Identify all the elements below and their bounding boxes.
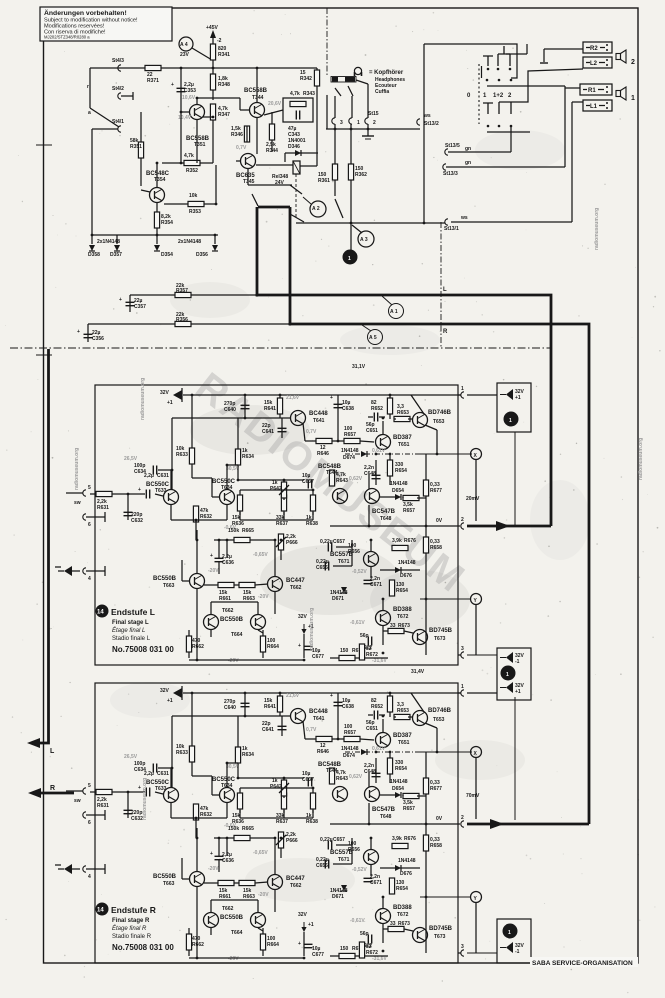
resistor R643 — [329, 470, 334, 486]
wire T671 emitter/collector — [370, 540, 372, 551]
svg-text:C353: C353 — [184, 88, 196, 94]
svg-text:Étage final L: Étage final L — [112, 627, 145, 634]
svg-text:BC547B: BC547B — [372, 509, 396, 515]
svg-text:Final stage R: Final stage R — [112, 918, 150, 924]
svg-text:St4/1: St4/1 — [112, 119, 124, 125]
resistor R361 — [334, 124, 336, 196]
box L1 — [583, 100, 612, 111]
SABA footer text — [530, 957, 638, 967]
svg-text:33: 33 — [390, 623, 396, 629]
svg-text:56p: 56p — [360, 633, 369, 639]
svg-text:D676: D676 — [400, 573, 412, 579]
svg-text:No.75008 031 00: No.75008 031 00 — [112, 645, 174, 654]
svg-text:+1: +1 — [515, 689, 521, 695]
svg-text:2: 2 — [461, 517, 464, 523]
resistor R654 — [389, 455, 391, 485]
svg-text:150: 150 — [340, 648, 349, 654]
svg-text:+: + — [77, 329, 80, 335]
svg-text:C631: C631 — [157, 473, 169, 479]
svg-text:1: 1 — [348, 256, 351, 262]
svg-text:1: 1 — [506, 672, 509, 678]
svg-text:2x1N4148: 2x1N4148 — [97, 239, 120, 245]
right column BC557B etc — [364, 552, 379, 567]
svg-text:R677: R677 — [430, 488, 442, 494]
svg-text:T641: T641 — [313, 418, 325, 424]
svg-text:a: a — [88, 110, 91, 116]
resistor R632 — [193, 506, 198, 522]
svg-text:Stadio finale L: Stadio finale L — [112, 636, 151, 642]
matrix top bridge contact — [498, 46, 510, 66]
svg-text:R352: R352 — [186, 168, 198, 174]
wire T633 collector — [170, 470, 172, 489]
connector St4/3 — [118, 65, 121, 71]
wire — [89, 68, 91, 108]
dash to X node — [420, 453, 472, 455]
wire BD388 collector — [382, 599, 384, 610]
svg-text:C634: C634 — [134, 469, 146, 475]
svg-text:radiomuseum.org: radiomuseum.org — [142, 778, 148, 820]
svg-text:T633: T633 — [155, 488, 167, 494]
svg-text:L: L — [50, 748, 55, 755]
capacitor C641 — [281, 418, 283, 438]
svg-text:BD745B: BD745B — [429, 628, 453, 634]
svg-text:R654: R654 — [396, 588, 408, 594]
junction dots amp — [127, 394, 392, 662]
svg-text:R676: R676 — [404, 538, 416, 544]
svg-text:-20V: -20V — [208, 568, 219, 574]
svg-text:20mV: 20mV — [466, 496, 480, 502]
diodes D358 D357 — [91, 235, 93, 244]
resistor R678 — [330, 657, 365, 659]
transistor T672 BD388 — [376, 611, 391, 626]
info box top left — [40, 7, 172, 41]
transistor T651 BD387 — [376, 435, 391, 450]
thick output line L amp with arrow — [467, 521, 551, 531]
svg-text:R663: R663 — [243, 596, 255, 602]
svg-text:r: r — [87, 84, 89, 90]
speaker 1 icon — [616, 87, 626, 100]
svg-text:R673: R673 — [398, 623, 410, 629]
R in arrow — [28, 788, 41, 798]
svg-text:R662: R662 — [192, 644, 204, 650]
svg-text:14: 14 — [97, 610, 104, 616]
svg-text:L2: L2 — [590, 61, 598, 67]
wire rail to L bus — [130, 294, 257, 296]
svg-text:radiomuseum.org: radiomuseum.org — [594, 208, 600, 250]
svg-text:R633: R633 — [176, 452, 188, 458]
svg-text:radiomuseum.org: radiomuseum.org — [638, 438, 644, 480]
wire T344 emitter to R343 net — [264, 110, 283, 115]
svg-text:St4/3: St4/3 — [112, 58, 124, 64]
svg-text:14: 14 — [97, 908, 104, 914]
svg-text:A 1: A 1 — [390, 309, 398, 315]
wire mid row to R1 — [487, 85, 565, 87]
transistor T641 BC448 — [291, 411, 306, 426]
+32V terminal box middle — [467, 648, 531, 820]
svg-text:C641: C641 — [262, 429, 274, 435]
speaker 2 icon — [616, 50, 626, 63]
svg-text:3: 3 — [461, 646, 464, 652]
svg-text:-31,6V: -31,6V — [372, 658, 387, 664]
resistor R634 — [237, 418, 239, 450]
+32V terminal box top — [497, 383, 531, 526]
svg-text:R656: R656 — [348, 549, 360, 555]
svg-text:BC447: BC447 — [286, 578, 305, 584]
svg-text:MJ202/STZ348/R0280 a: MJ202/STZ348/R0280 a — [44, 35, 90, 40]
svg-text:Stadio finale R: Stadio finale R — [112, 934, 152, 940]
middle resistors R665 P666 — [234, 537, 250, 542]
transistor T648 BC547B — [365, 489, 380, 504]
diode D354 — [156, 235, 158, 244]
cap C671 diode D671 — [364, 580, 373, 583]
svg-text:R362: R362 — [355, 172, 367, 178]
input resistor R631 — [90, 493, 145, 495]
trimmer P642 — [283, 480, 285, 500]
wire BD745B base row — [404, 631, 413, 633]
svg-text:T345: T345 — [243, 179, 255, 185]
wire rail to R bus — [88, 323, 290, 325]
svg-text:6: 6 — [88, 522, 91, 528]
svg-text:-1: -1 — [515, 949, 520, 955]
svg-text:+45V: +45V — [206, 25, 218, 31]
svg-text:T673: T673 — [434, 636, 446, 642]
resistor R641 — [279, 395, 281, 418]
svg-text:2: 2 — [631, 59, 635, 66]
svg-text:10,4V: 10,4V — [178, 115, 192, 121]
wire bottom -29V rail — [189, 659, 304, 661]
svg-text:R2: R2 — [590, 46, 598, 52]
svg-text:T354: T354 — [154, 177, 166, 183]
svg-text:A 3: A 3 — [360, 237, 368, 243]
resistor R347 — [210, 104, 215, 120]
capacitor C631 — [146, 490, 149, 499]
svg-text:Endstufe L: Endstufe L — [111, 607, 155, 617]
svg-text:R342: R342 — [300, 76, 312, 82]
wire St13/2 drop — [423, 44, 425, 223]
emitter join wires — [170, 505, 172, 520]
svg-text:T662: T662 — [222, 608, 234, 614]
svg-text:R353: R353 — [189, 209, 201, 215]
R in bus — [34, 792, 74, 795]
svg-text:P666: P666 — [286, 540, 298, 546]
32V supply arrow top — [173, 390, 182, 400]
transistor T634 — [220, 490, 235, 505]
svg-text:BC558B: BC558B — [244, 88, 268, 94]
wires below transistors — [196, 119, 198, 163]
svg-text:R641: R641 — [264, 406, 276, 412]
resistor R658 — [423, 537, 428, 553]
resistor R672 — [359, 644, 364, 660]
input connector 5 — [83, 490, 86, 496]
svg-text:-0,65V: -0,65V — [253, 552, 268, 558]
node A2 circle — [310, 201, 326, 217]
wire L1 drop to St13/1 row — [572, 101, 583, 103]
screen rail — [326, 128, 420, 130]
svg-text:D356: D356 — [196, 252, 208, 258]
svg-text:R351: R351 — [130, 144, 142, 150]
svg-text:R348: R348 — [218, 82, 230, 88]
svg-text:R356: R356 — [176, 317, 188, 323]
svg-text:150k: 150k — [228, 528, 239, 534]
svg-text:31,4V: 31,4V — [411, 669, 425, 675]
svg-text:R1: R1 — [588, 88, 596, 94]
svg-text:T644: T644 — [326, 470, 338, 476]
wire R636-R638 tops — [240, 489, 313, 491]
resistor R348 — [212, 68, 214, 100]
svg-text:1: 1 — [461, 386, 464, 392]
svg-text:1N4148: 1N4148 — [398, 560, 416, 566]
connector St13/2 — [417, 119, 420, 125]
svg-text:0,7V: 0,7V — [236, 145, 247, 151]
svg-text:P642: P642 — [270, 486, 282, 492]
resistor R657 — [403, 495, 419, 500]
matrix lower T contact — [483, 103, 493, 114]
resistors R661 R662h — [218, 582, 234, 587]
Endstufe R text block — [96, 903, 175, 953]
svg-text:R371: R371 — [147, 78, 159, 84]
svg-text:0,22µ: 0,22µ — [320, 539, 333, 545]
matrix dashed selector column — [478, 64, 480, 124]
svg-text:R665: R665 — [242, 528, 254, 534]
wires interior vertical drops — [196, 530, 198, 574]
transistor T663 BC550B — [190, 574, 205, 589]
svg-text:R: R — [50, 785, 55, 792]
wire C657 net — [336, 546, 352, 548]
svg-text:1: 1 — [631, 95, 635, 102]
wire R1 drop to St13/3 row — [564, 86, 566, 167]
svg-text:2: 2 — [373, 120, 376, 126]
svg-text:32V: 32V — [298, 614, 308, 620]
resistor R371 — [145, 65, 161, 70]
output connectors right edge — [461, 392, 464, 398]
svg-text:D671: D671 — [332, 596, 344, 602]
wire stage2 row — [237, 465, 239, 480]
wire T634 collector up — [226, 465, 228, 489]
svg-text:R361: R361 — [318, 178, 330, 184]
wire R346 to BC635 base — [246, 126, 248, 142]
jack switch contacts — [335, 88, 341, 96]
transistor T344 — [250, 103, 265, 118]
svg-text:-1: -1 — [515, 659, 520, 665]
svg-text:R643: R643 — [336, 478, 348, 484]
relay Rel348 — [293, 161, 300, 174]
box R1 — [580, 84, 612, 95]
svg-text:+1: +1 — [167, 400, 173, 406]
resistor R646 — [305, 440, 346, 442]
dash-dot vertical to divider — [440, 222, 442, 348]
svg-text:1+2: 1+2 — [493, 93, 504, 99]
svg-text:Final stage L: Final stage L — [112, 620, 149, 626]
capacitor C357 — [129, 295, 131, 312]
wire lower contact to L2 — [511, 69, 583, 102]
diode D346 — [285, 152, 318, 154]
svg-text:= Kopfhörer: = Kopfhörer — [369, 70, 404, 76]
diode D674 — [345, 453, 420, 455]
svg-text:ws: ws — [460, 215, 468, 221]
svg-text:C636: C636 — [222, 560, 234, 566]
svg-text:R347: R347 — [218, 112, 230, 118]
svg-text:+: + — [119, 297, 122, 303]
svg-text:R661: R661 — [219, 596, 231, 602]
connector 3 bottom — [461, 652, 464, 658]
capacitor C637 — [308, 480, 311, 489]
capacitor C638 — [337, 395, 339, 414]
wire T663 base — [182, 580, 190, 582]
thick output line R amp with arrow — [466, 793, 589, 829]
wire R661 row to transistors — [204, 584, 218, 586]
resistors R636 R637 R638 — [239, 490, 241, 515]
supply rail wire — [183, 394, 461, 396]
resistor R362 — [350, 124, 352, 223]
node A4 — [179, 37, 193, 51]
svg-text:R646: R646 — [317, 451, 329, 457]
svg-text:+: + — [330, 395, 333, 401]
wire T344 collector up — [256, 68, 258, 103]
svg-text:Étage final R: Étage final R — [112, 925, 147, 932]
svg-text:St13/5: St13/5 — [445, 143, 460, 149]
wire T354 base — [141, 190, 150, 192]
relay contact arms — [252, 194, 258, 206]
+32V terminal box bottom — [467, 919, 531, 963]
diode D654 — [395, 494, 401, 500]
svg-text:C656: C656 — [316, 565, 328, 571]
svg-text:R654: R654 — [395, 468, 407, 474]
node A3 circle — [358, 231, 374, 247]
node A1 circle — [389, 304, 404, 319]
wire right output column — [417, 497, 426, 499]
resistor R341 — [212, 36, 214, 68]
svg-text:C640: C640 — [224, 407, 236, 413]
svg-text:C677: C677 — [312, 654, 324, 660]
svg-text:T671: T671 — [338, 559, 350, 565]
wire feed into matrix top — [424, 44, 517, 78]
resistor R352 — [162, 162, 213, 164]
node A5 circle — [368, 330, 383, 345]
capacitor C672 — [368, 637, 371, 646]
resistor R354 — [156, 202, 158, 235]
headphone icon — [354, 67, 361, 74]
junction dots top section — [91, 67, 426, 326]
svg-text:BD387: BD387 — [393, 435, 412, 441]
svg-text:23V: 23V — [180, 52, 190, 58]
base link line — [172, 417, 291, 419]
svg-text:radiomuseum.org: radiomuseum.org — [74, 448, 80, 490]
svg-text:A 2: A 2 — [312, 206, 320, 212]
caps C657 C656 — [328, 543, 331, 552]
diodes D356 — [214, 235, 216, 244]
transistor T351 — [190, 105, 205, 120]
box R2 — [583, 42, 612, 53]
svg-text:BC550B: BC550B — [220, 617, 244, 623]
resistor R356 — [175, 321, 191, 326]
resistor R357 — [175, 292, 191, 297]
svg-text:26,5V: 26,5V — [124, 456, 138, 462]
resistor R662 — [188, 630, 190, 658]
svg-text:-0,52V: -0,52V — [352, 569, 367, 575]
svg-text:-29V: -29V — [228, 658, 239, 664]
svg-text:Endstufe R: Endstufe R — [111, 905, 156, 915]
resistor R673 — [388, 628, 404, 633]
svg-text:10k: 10k — [189, 193, 198, 199]
input connector 6 — [83, 514, 86, 520]
svg-text:+1: +1 — [515, 395, 521, 401]
resistor R344 — [269, 124, 274, 140]
wire T662 collector up — [274, 540, 276, 576]
svg-text:R357: R357 — [176, 288, 188, 294]
resistor R677 — [425, 454, 427, 480]
connectors 3 1 2 — [334, 96, 336, 118]
svg-text:T351: T351 — [194, 142, 206, 148]
capacitor C634 — [153, 466, 156, 475]
wire C353 column to R352 row — [180, 160, 182, 163]
svg-text:-0,61V: -0,61V — [350, 620, 365, 626]
fold tick marks on left border — [36, 144, 52, 146]
wire base T351 — [181, 111, 190, 113]
black terminal 1 — [504, 412, 519, 427]
transistor T354 — [150, 188, 165, 203]
svg-text:4,7k: 4,7k — [290, 91, 300, 97]
resistor R351 — [140, 112, 142, 186]
Y node circle — [471, 594, 482, 605]
svg-text:-20V: -20V — [258, 594, 269, 600]
svg-text:0V: 0V — [436, 518, 443, 524]
wire T351 collector to T344 base — [196, 98, 198, 105]
svg-text:0,61V: 0,61V — [372, 448, 386, 454]
svg-text:R631: R631 — [97, 505, 109, 511]
svg-text:gn: gn — [465, 160, 471, 166]
svg-text:R652: R652 — [371, 406, 383, 412]
transistor T644 BC548B — [333, 489, 348, 504]
dash-dot horizontal section divider — [10, 347, 551, 349]
wire R342 column to relay — [316, 98, 318, 166]
transistor T673 BD745B — [413, 630, 428, 645]
svg-text:-2: -2 — [217, 38, 222, 44]
svg-text:T653: T653 — [433, 419, 445, 425]
left vertical bus to L out — [34, 349, 49, 743]
resistor R346 — [244, 126, 249, 142]
svg-text:gn: gn — [465, 146, 471, 152]
svg-text:T662: T662 — [290, 585, 302, 591]
svg-text:R657: R657 — [344, 432, 356, 438]
+45V supply arrow — [210, 30, 216, 38]
jack body — [331, 77, 356, 83]
L out arrow — [27, 738, 40, 748]
ground at jack — [367, 124, 369, 136]
svg-text:21,6V: 21,6V — [286, 395, 300, 401]
feedback vertical wire — [171, 418, 173, 490]
svg-text:St15: St15 — [368, 111, 379, 117]
svg-text:4,7k: 4,7k — [184, 153, 194, 159]
wire T648 collector / emitter — [368, 475, 370, 489]
svg-text:0,7V: 0,7V — [306, 429, 317, 435]
diode D676 — [395, 567, 401, 573]
svg-text:St4/2: St4/2 — [112, 86, 124, 92]
svg-text:2x1N4148: 2x1N4148 — [178, 239, 201, 245]
svg-text:C657: C657 — [333, 539, 345, 545]
resistor R353 — [164, 203, 216, 205]
lower pair transistors — [204, 615, 219, 630]
svg-text:T648: T648 — [380, 516, 392, 522]
wire matrix to R2 — [544, 48, 583, 50]
svg-text:R636: R636 — [232, 521, 244, 527]
svg-text:31,1V: 31,1V — [352, 364, 366, 370]
matrix top T contact — [483, 56, 493, 66]
matrix bottom dots and row — [487, 125, 490, 128]
svg-text:St13/2: St13/2 — [424, 121, 439, 127]
wire St4/1 rail to diode row — [92, 128, 118, 130]
svg-text:R341: R341 — [218, 52, 230, 58]
svg-text:radiomuseum.org: radiomuseum.org — [140, 378, 146, 420]
